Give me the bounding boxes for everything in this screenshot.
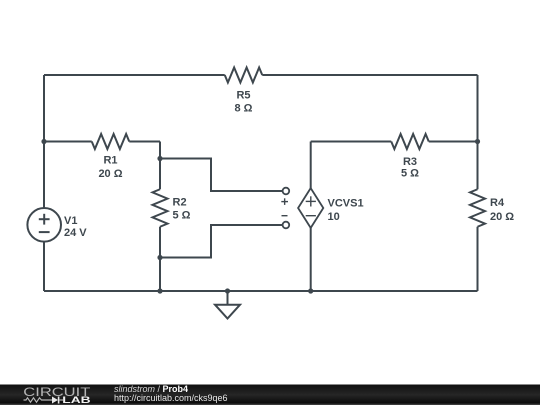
CircuitLab logo xyxy=(23,385,91,405)
svg-text:http://circuitlab.com/cks9qe6: http://circuitlab.com/cks9qe6 xyxy=(114,393,228,403)
wire: left rail, V1 down to bottom corner xyxy=(43,242,45,291)
node: R2 top / sense+ branch junction xyxy=(157,156,162,161)
wire: R1 left lead xyxy=(44,141,92,143)
svg-text:LAB: LAB xyxy=(62,395,90,405)
svg-text:R5: R5 xyxy=(236,90,250,102)
svg-text:20 Ω: 20 Ω xyxy=(98,168,122,180)
resistor R1 (20 ohm) xyxy=(92,134,130,180)
svg-text:VCVS1: VCVS1 xyxy=(328,198,364,210)
wire: sense- branch to terminal xyxy=(160,225,283,258)
voltage source V1 (24 V) xyxy=(27,208,87,242)
wire: top bus, right segment xyxy=(262,74,477,76)
svg-text:10: 10 xyxy=(328,211,340,223)
svg-text:5 Ω: 5 Ω xyxy=(401,168,419,180)
node: VCVS1 / bottom bus junction xyxy=(308,288,313,293)
resistor R3 (5 ohm) xyxy=(391,134,429,180)
svg-text:8 Ω: 8 Ω xyxy=(235,103,253,115)
wire: R1 right lead xyxy=(129,141,160,143)
footer caption: author / title xyxy=(114,384,228,403)
wire: top bus, left segment xyxy=(44,74,225,76)
node: R3 / right rail junction xyxy=(475,139,480,144)
wire: right rail, lower xyxy=(477,227,479,291)
wire: right rail, upper xyxy=(477,75,479,189)
svg-text:20 Ω: 20 Ω xyxy=(490,211,514,223)
terminal: sense positive xyxy=(281,188,289,205)
wire: VCVS1 top lead xyxy=(310,142,312,189)
wire: R2 top lead xyxy=(159,142,161,190)
node: left rail / R1 junction xyxy=(41,139,46,144)
svg-text:V1: V1 xyxy=(64,215,77,227)
wire: R3 left lead xyxy=(311,141,392,143)
wire: R2 bottom lead xyxy=(159,227,161,291)
ground symbol xyxy=(215,291,240,319)
svg-text:5 Ω: 5 Ω xyxy=(173,210,191,222)
node: ground / bottom bus junction xyxy=(225,288,230,293)
resistor R5 (8 ohm) xyxy=(225,68,263,115)
svg-text:24 V: 24 V xyxy=(64,227,87,239)
node: R2 / bottom bus junction xyxy=(157,288,162,293)
resistor R2 (5 ohm) xyxy=(153,189,191,227)
wire: VCVS1 bottom lead xyxy=(310,228,312,291)
svg-text:R2: R2 xyxy=(173,197,187,209)
svg-text:R3: R3 xyxy=(403,156,417,168)
footer bar xyxy=(0,385,540,405)
dependent source VCVS1 (gain 10) xyxy=(298,188,363,228)
svg-text:R1: R1 xyxy=(103,155,117,167)
wire: R3 right lead xyxy=(429,141,478,143)
wire: sense+ branch to terminal xyxy=(160,159,283,192)
wire: bottom bus xyxy=(44,290,478,292)
svg-text:R4: R4 xyxy=(490,197,505,209)
wire: left rail, top corner down to V1 xyxy=(43,75,45,208)
terminal: sense negative xyxy=(282,216,290,229)
node: R2 bottom / sense- branch junction xyxy=(157,255,162,260)
resistor R4 (20 ohm) xyxy=(470,189,514,227)
